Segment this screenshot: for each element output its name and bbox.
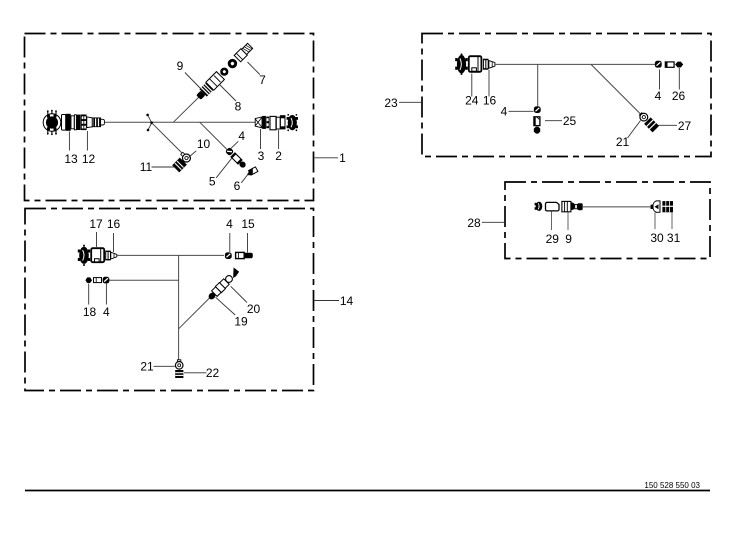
svg-text:1: 1 <box>339 151 346 165</box>
svg-text:4: 4 <box>655 89 662 103</box>
fitting 16 (box14) <box>105 251 117 261</box>
connector face 13 (round) <box>43 110 61 135</box>
pin (dark, near 5) <box>238 160 247 169</box>
connector 13 body <box>62 114 81 131</box>
leader 20 <box>231 286 247 302</box>
svg-text:150 528 550 03: 150 528 550 03 <box>644 481 700 490</box>
leader 16 (box23) <box>488 70 490 97</box>
grommet 11 <box>173 158 187 172</box>
svg-text:20: 20 <box>247 302 261 316</box>
svg-text:11: 11 <box>140 160 153 174</box>
leader 27 <box>659 124 678 126</box>
seal ring (large, near 7) <box>226 57 239 70</box>
ring 21 (box14) <box>175 360 183 369</box>
adapter 3 <box>255 116 269 129</box>
leader 4 (mid box23) <box>509 110 534 112</box>
svg-text:30: 30 <box>650 231 664 245</box>
svg-text:24: 24 <box>465 94 479 108</box>
wire box28 <box>583 206 651 208</box>
leader 25 <box>545 120 562 122</box>
leader 5 <box>216 158 232 178</box>
leader 18 <box>88 284 90 305</box>
sleeve 15 <box>236 252 253 258</box>
ring 4 (right box23) <box>655 61 662 68</box>
svg-text:21: 21 <box>140 360 154 374</box>
svg-text:19: 19 <box>234 315 248 329</box>
wire diagonal to items 10/11 <box>152 123 186 157</box>
housing 29 <box>546 202 560 211</box>
fitting 16 (box23) <box>483 59 495 70</box>
svg-text:25: 25 <box>563 114 577 128</box>
wire diagonal to 19/20 <box>179 298 210 329</box>
connector 2 <box>270 116 285 130</box>
retainer 30 <box>651 201 660 212</box>
main wire box23 <box>495 63 656 65</box>
frame box 28 (dash-dot border) <box>505 182 710 259</box>
seal ring (right of 2) <box>287 114 298 131</box>
seal ring (left of 17) <box>78 245 90 266</box>
connector 12 body and ribbed nose <box>87 117 105 128</box>
pin 18 <box>85 277 92 283</box>
leader 4 (box1) <box>231 141 238 148</box>
svg-text:4: 4 <box>501 105 508 119</box>
svg-text:5: 5 <box>209 175 216 189</box>
svg-text:18: 18 <box>83 305 97 319</box>
svg-text:4: 4 <box>238 129 245 143</box>
leader 7 <box>248 62 260 75</box>
leader 31 <box>671 213 673 230</box>
label 23 leader <box>399 101 421 103</box>
wire diagonal to 21/27 <box>591 64 641 114</box>
label 1 leader <box>315 157 339 159</box>
plug 19 (dark) <box>207 291 217 301</box>
ring 4 (near 15) <box>225 252 232 259</box>
leader 30 <box>654 213 656 230</box>
connector 12 ribbed ring <box>81 115 87 131</box>
leader 21 (box14) <box>154 365 175 367</box>
leader 11 <box>152 166 175 168</box>
leader 4 (near 15) <box>229 233 231 252</box>
leader 2 <box>278 130 280 149</box>
svg-text:29: 29 <box>546 232 560 246</box>
wire diagonal to items 9/8/7 <box>173 95 201 122</box>
svg-text:22: 22 <box>206 366 220 380</box>
svg-text:9: 9 <box>177 59 184 73</box>
leader 17 <box>96 232 98 247</box>
label 14 leader <box>314 300 339 302</box>
svg-text:4: 4 <box>226 217 233 231</box>
bottom rule <box>25 490 710 492</box>
leader 19 <box>216 297 236 315</box>
ring 21 (box23) <box>638 111 650 123</box>
svg-text:23: 23 <box>384 96 398 110</box>
grommet 27 <box>644 117 659 132</box>
leader 4 (second branch) <box>105 284 107 305</box>
leader 13 <box>68 132 70 151</box>
seal ring (left of 24) <box>455 53 468 75</box>
leader 26 <box>678 68 680 90</box>
svg-text:16: 16 <box>107 217 121 231</box>
leader 21 (box23) <box>628 121 641 139</box>
ring 4 (box1) <box>225 147 234 156</box>
seal ring (small, near 8) <box>219 66 231 78</box>
svg-text:8: 8 <box>235 100 242 114</box>
svg-text:13: 13 <box>64 152 78 166</box>
label 28 leader <box>482 221 504 223</box>
leader 12 <box>86 131 88 151</box>
leader 22 <box>184 372 207 374</box>
svg-text:26: 26 <box>672 89 686 103</box>
seal ring (left of 29) <box>535 202 543 211</box>
leader 8 <box>220 85 237 102</box>
pin 26 <box>675 62 683 68</box>
leader 16 (box14) <box>113 233 115 252</box>
leader 4 (right box23) <box>659 70 661 90</box>
terminal 6 <box>245 167 258 177</box>
sleeve (right box23) <box>665 62 674 67</box>
svg-text:15: 15 <box>241 217 255 231</box>
connector 9 with boot <box>195 83 214 102</box>
svg-text:7: 7 <box>259 73 266 87</box>
leader 9 <box>185 73 203 91</box>
frame box 1 (dash-dot border) <box>25 34 314 201</box>
leader 15 <box>247 233 249 253</box>
svg-text:14: 14 <box>340 294 354 308</box>
svg-text:16: 16 <box>483 94 497 108</box>
wire vertical box14 <box>178 255 180 361</box>
svg-text:9: 9 <box>565 232 572 246</box>
branch junction with stubs <box>146 114 153 132</box>
svg-text:12: 12 <box>82 152 96 166</box>
pin (below 25) <box>534 127 540 134</box>
sleeve (right of 18) <box>94 278 102 283</box>
sleeve 25 <box>534 116 540 125</box>
svg-text:3: 3 <box>258 149 265 163</box>
leader 10 <box>189 151 197 158</box>
grommet 22 <box>175 370 183 378</box>
ring 10 <box>179 151 192 164</box>
housing 8 <box>206 72 225 91</box>
ring 4 (second branch) <box>103 277 110 284</box>
connector 9 (box28) <box>562 201 583 211</box>
svg-text:31: 31 <box>667 231 681 245</box>
svg-text:17: 17 <box>89 217 103 231</box>
leader 29 <box>551 212 553 231</box>
connector 17 <box>91 248 104 262</box>
wire main box14 <box>117 254 224 256</box>
svg-text:21: 21 <box>616 135 630 149</box>
ring 4 (mid box23) <box>534 106 541 113</box>
plug 7 <box>234 43 253 62</box>
wire vertical to 4/25 <box>537 64 539 107</box>
main wire box1 <box>105 121 256 123</box>
leader 3 <box>260 129 262 149</box>
svg-text:4: 4 <box>103 305 110 319</box>
sleeve 5 <box>231 153 242 164</box>
leader 6 <box>241 174 248 183</box>
grommet 31 <box>662 201 673 212</box>
connector 24 <box>469 56 482 72</box>
svg-text:28: 28 <box>467 216 481 230</box>
svg-text:27: 27 <box>678 119 692 133</box>
frame box 14 (dash-dot border) <box>25 209 314 391</box>
leader 9 (box28) <box>567 213 569 231</box>
frame box 23 (dash-dot border) <box>422 34 711 157</box>
svg-text:6: 6 <box>234 179 241 193</box>
wire diagonal to items 4/5 <box>200 122 227 149</box>
svg-text:10: 10 <box>197 137 211 151</box>
wire second branch (18/4) <box>110 279 179 281</box>
svg-text:2: 2 <box>275 149 282 163</box>
leader 24 <box>471 74 473 97</box>
connector 20 ribbed body <box>211 267 241 297</box>
